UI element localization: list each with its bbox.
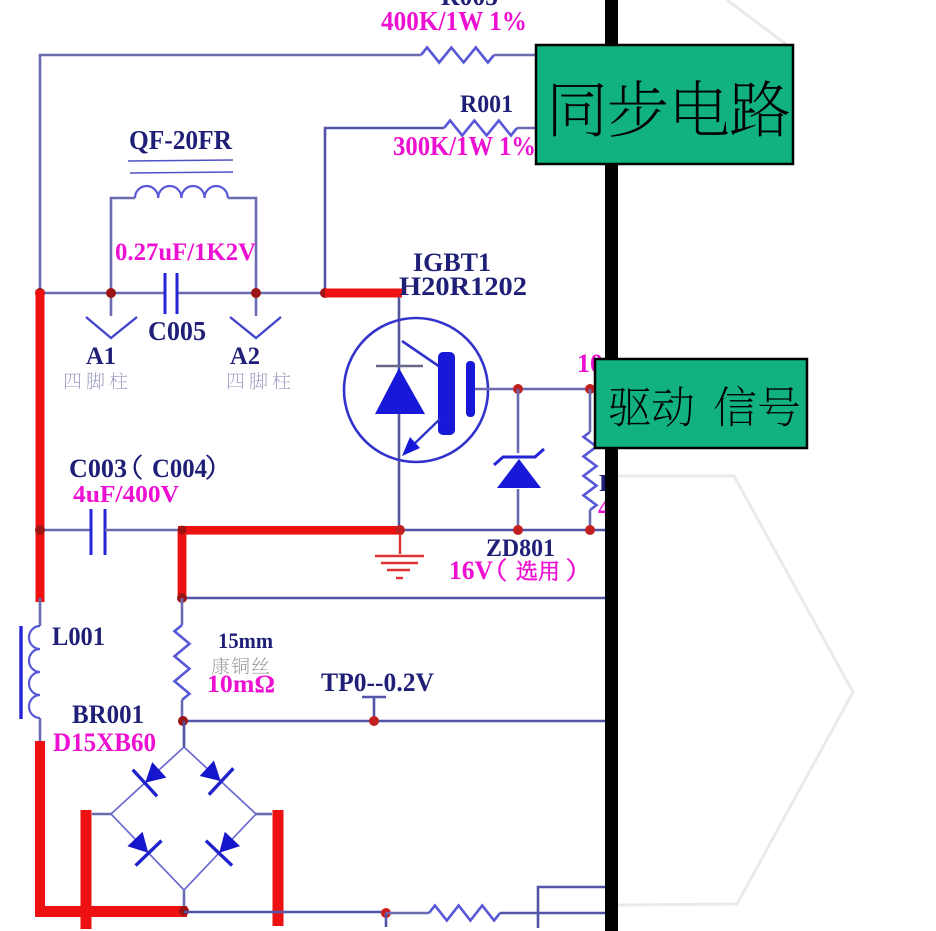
svg-text:QF-20FR: QF-20FR (129, 125, 232, 155)
svg-text:C003: C003 (69, 454, 127, 483)
svg-text:D15XB60: D15XB60 (53, 728, 156, 757)
drive signal box 驱动信号 (595, 359, 807, 448)
svg-text:10mΩ: 10mΩ (207, 671, 275, 698)
node dot x386 y913 (381, 908, 391, 918)
svg-text:0.27uF/1K2V: 0.27uF/1K2V (115, 239, 256, 266)
node dot x325 y293 (320, 288, 330, 298)
red bus vertical x278 (273, 810, 284, 926)
svg-text:400K/1W 1%: 400K/1W 1% (381, 6, 527, 36)
wire bridge left stub (92, 813, 111, 816)
node dot x111 y293 (106, 288, 116, 298)
value 16V (optional) (449, 556, 574, 585)
resistor bottom (429, 906, 500, 921)
svg-text:R001: R001 (460, 91, 513, 118)
wire R005 to sync box (494, 54, 537, 57)
red bus horizontal y293 to IGBT (325, 289, 402, 298)
wire to bottom resistor (386, 912, 429, 915)
svg-text:H20R1202: H20R1202 (399, 272, 527, 301)
node dot TP y721 (369, 716, 379, 726)
resistor shunt 10mOhm (175, 598, 190, 721)
svg-text:A1: A1 (86, 343, 116, 370)
node dot bridge bottom (179, 906, 189, 916)
component box bottom right (538, 887, 612, 928)
QF box frame (111, 198, 135, 293)
diode bridge top-left (133, 757, 172, 797)
label A1 四脚柱 (65, 372, 127, 389)
node dot x40 y293 (35, 288, 45, 298)
svg-text:TP0--0.2V: TP0--0.2V (321, 668, 434, 697)
zener ZD801 (494, 389, 544, 530)
resistor R001 (444, 121, 517, 136)
node dot x400 y530 (395, 525, 405, 535)
red bus vertical x40 bottom (35, 741, 45, 916)
wire y912 (184, 911, 386, 914)
pin A1 arrow (86, 293, 137, 338)
svg-text:C005: C005 (148, 316, 206, 346)
wire bridge bottom stem (183, 890, 186, 908)
inductor QF-20FR coil (135, 186, 228, 198)
wire top horizontal to R005 (40, 55, 421, 293)
label C003 (C004) (69, 454, 214, 483)
label A2 四脚柱 (228, 372, 290, 389)
inductor L001 (21, 598, 40, 745)
bridge BR001 diamond (111, 747, 256, 890)
wire bridge top stem (183, 721, 186, 747)
pin A2 arrow (230, 293, 281, 338)
watermark hexagon large (616, 476, 853, 905)
wire IGBT gate to drive (475, 388, 597, 391)
resistor R005 (421, 48, 494, 63)
svg-text:15mm: 15mm (218, 628, 273, 653)
wire stub below node (385, 913, 388, 927)
wire R001 left + vertical to node (325, 128, 444, 293)
svg-text:ZD801: ZD801 (486, 535, 555, 562)
node dot x518 y530 (513, 525, 523, 535)
capacitor C005 (165, 273, 177, 314)
red bus horizontal bottom (35, 906, 187, 917)
svg-text:4uF/400V: 4uF/400V (73, 482, 180, 508)
wire bridge right stub (256, 813, 272, 816)
label 康铜丝 (212, 657, 270, 675)
svg-text:BR001: BR001 (72, 700, 144, 729)
diode bridge top-right (195, 755, 234, 795)
wire C003 to red elbow (105, 529, 182, 532)
transistor IGBT1 (344, 297, 488, 530)
node dot x182 y530 (178, 526, 187, 535)
wire y530 right part (403, 529, 606, 532)
divider bar (605, 0, 618, 931)
red bus y530 (178, 526, 403, 535)
node dot x182 y721 (178, 716, 188, 726)
wire R001 to sync box (517, 127, 537, 130)
diode bridge bottom-right (206, 827, 246, 866)
resistor gate vertical (584, 389, 597, 530)
node dot x590 y389 (585, 384, 595, 394)
diode bridge bottom-left (122, 827, 161, 866)
node dot x182 y598 (177, 593, 187, 603)
ground (375, 534, 424, 578)
svg-text:A2: A2 (230, 343, 260, 370)
red bus vertical left x40 (36, 290, 45, 602)
svg-text:C004: C004 (152, 454, 207, 483)
wire resistor to bar (500, 912, 606, 915)
wire y721 (182, 720, 606, 723)
wire y530 left of C003 (40, 529, 91, 532)
wire node row y293 (40, 292, 165, 295)
node dot x518 y389 (513, 384, 523, 394)
red bus vertical x182 (178, 530, 187, 600)
node dot x40 y530 (35, 525, 45, 535)
svg-text:16V: 16V (449, 556, 493, 585)
test point TP0-0.2V (362, 697, 386, 721)
red bus vertical x86 (81, 810, 92, 929)
node dot x590 y530 (585, 525, 595, 535)
node dot x256 y293 (251, 288, 261, 298)
watermark hexagon top fragment (727, 0, 791, 48)
capacitor C003 (91, 509, 105, 555)
QF-20FR underline double (128, 160, 233, 173)
wire y598 (182, 597, 606, 600)
svg-text:300K/1W 1%: 300K/1W 1% (393, 131, 536, 161)
svg-text:L001: L001 (52, 622, 105, 651)
sync circuit box 同步电路 (536, 45, 793, 164)
